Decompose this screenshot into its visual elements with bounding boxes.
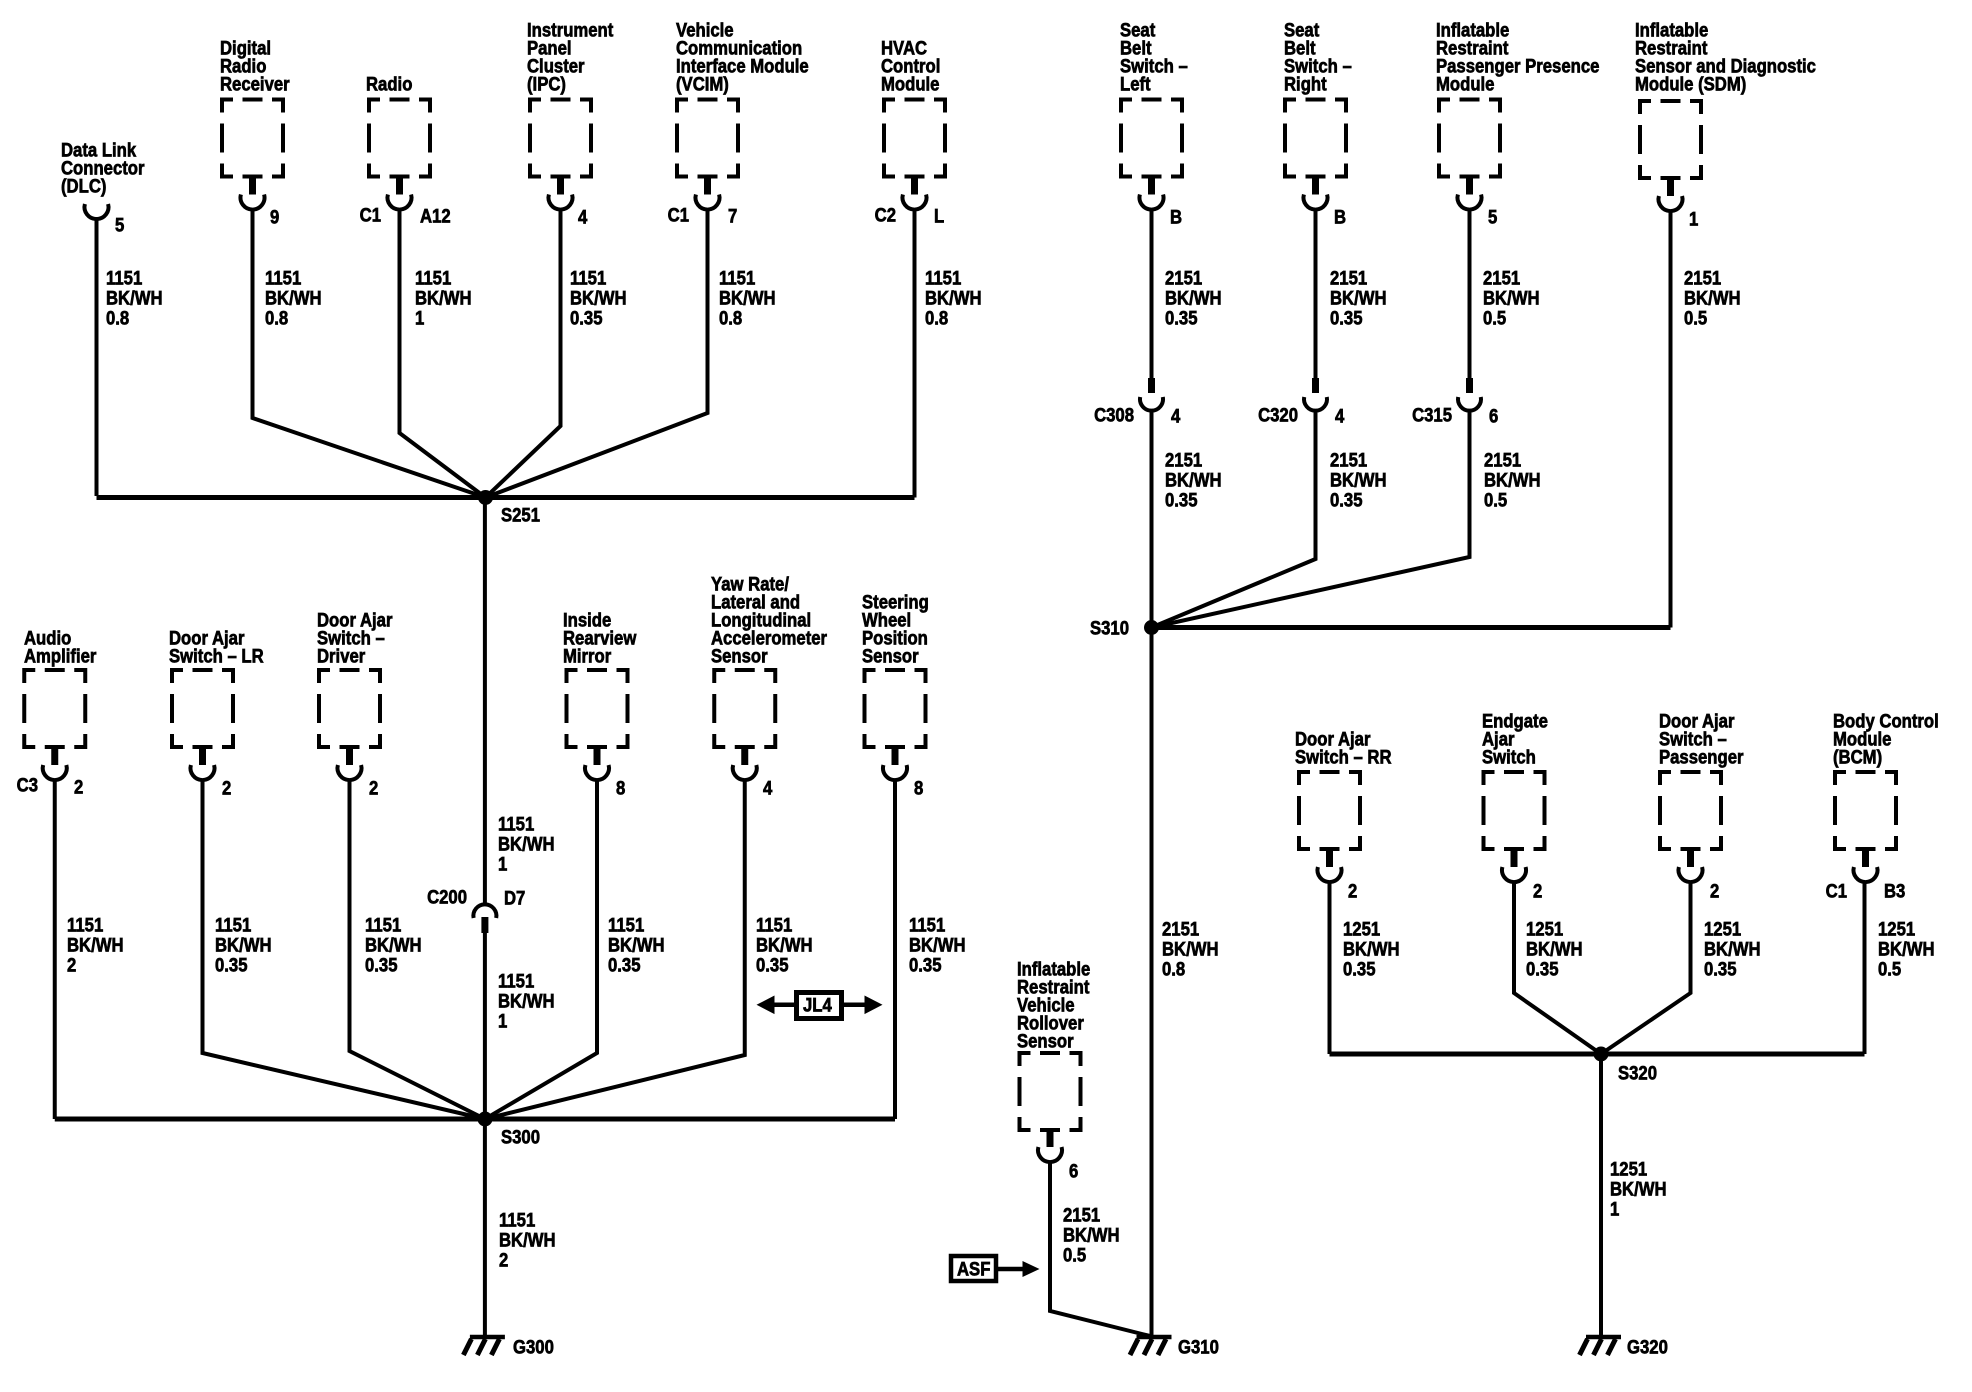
- component Inside Rearview Mirror: [565, 668, 630, 749]
- svg-text:0.5: 0.5: [1483, 308, 1506, 329]
- pin 2 (Endgate Ajar Switch): [1533, 881, 1542, 902]
- svg-text:1251: 1251: [1610, 1159, 1647, 1180]
- wire label 1151 BK/WH 1 (Radio): [415, 268, 472, 329]
- wire label 1251 BK/WH 0.35 (Passenger): [1704, 919, 1761, 980]
- component Seat Belt Switch Left: [1119, 98, 1184, 179]
- svg-text:1151: 1151: [909, 915, 945, 936]
- wire 1251 BK/WH from BCM: [1863, 882, 1867, 1054]
- wire 1251 BK/WH from Endgate Ajar Switch: [1514, 882, 1601, 1054]
- wire label 1151 BK/WH 1 (below C200): [498, 971, 555, 1032]
- label Body Control Module (BCM): [1833, 711, 1939, 768]
- svg-text:G320: G320: [1627, 1337, 1668, 1358]
- svg-text:0.35: 0.35: [1330, 490, 1363, 511]
- svg-text:1151: 1151: [498, 814, 534, 835]
- svg-text:Sensor: Sensor: [711, 646, 768, 667]
- svg-text:2151: 2151: [1165, 450, 1202, 471]
- wire label 1151 BK/WH 0.35 (IRM): [608, 915, 665, 976]
- svg-text:0.5: 0.5: [1684, 308, 1707, 329]
- label Instrument Panel Cluster (IPC): [527, 20, 613, 95]
- svg-text:4: 4: [763, 778, 772, 799]
- pin 7 (VCIM): [728, 206, 737, 227]
- pin 8 (Inside Rearview Mirror): [616, 778, 625, 799]
- connector C1 (Radio): [360, 205, 381, 226]
- wire 1151 BK/WH S251 to C200: [483, 498, 487, 907]
- node label S310: [1090, 618, 1129, 639]
- svg-text:6: 6: [1069, 1161, 1078, 1182]
- svg-text:0.5: 0.5: [1878, 959, 1901, 980]
- svg-text:C1: C1: [668, 205, 689, 226]
- wire label 1151 BK/WH 0.8 (DLC): [106, 268, 163, 329]
- connector BCM: [1854, 851, 1878, 882]
- pin 8 (SWPS): [914, 778, 923, 799]
- svg-text:C1: C1: [1826, 881, 1847, 902]
- connector Digital Radio Receiver: [241, 179, 265, 210]
- svg-text:BK/WH: BK/WH: [106, 288, 163, 309]
- node label S320: [1618, 1063, 1657, 1084]
- pin 2 (Door Ajar LR): [222, 778, 231, 799]
- svg-text:0.35: 0.35: [1330, 308, 1363, 329]
- connector C1 (BCM): [1826, 881, 1847, 902]
- splice S320: [1594, 1047, 1609, 1062]
- connector label C320: [1258, 405, 1298, 426]
- pin 6 (Rollover Sensor): [1069, 1161, 1078, 1182]
- svg-text:B3: B3: [1884, 881, 1905, 902]
- svg-text:Sensor: Sensor: [862, 646, 919, 667]
- svg-text:2: 2: [369, 778, 378, 799]
- svg-text:1151: 1151: [415, 268, 451, 289]
- svg-text:1151: 1151: [215, 915, 251, 936]
- pin 4 (C320): [1335, 406, 1344, 427]
- svg-text:Module (SDM): Module (SDM): [1635, 74, 1746, 95]
- svg-text:0.35: 0.35: [909, 955, 942, 976]
- component Door Ajar Switch Passenger: [1658, 770, 1723, 851]
- svg-text:Right: Right: [1284, 74, 1327, 95]
- connector Seat Belt Switch Left: [1140, 179, 1164, 210]
- svg-text:BK/WH: BK/WH: [215, 935, 272, 956]
- label Door Ajar Switch - RR: [1295, 729, 1392, 768]
- label Door Ajar Switch - LR: [169, 628, 264, 667]
- pin B3 (BCM): [1884, 881, 1905, 902]
- pin 2 (Door Ajar Driver): [369, 778, 378, 799]
- wire label 1251 BK/WH 0.35 (RR): [1343, 919, 1400, 980]
- wire 1151 BK/WH C200 to S300: [483, 932, 487, 1119]
- label Endgate Ajar Switch: [1482, 711, 1548, 768]
- connector label C200: [427, 887, 467, 908]
- svg-text:C200: C200: [427, 887, 467, 908]
- wire label 2151 BK/WH 0.5 (PPM): [1483, 268, 1540, 329]
- wire label 1151 BK/WH 1 (above C200): [498, 814, 555, 875]
- pin B (Seat Belt Left): [1170, 207, 1182, 228]
- svg-text:B: B: [1170, 207, 1182, 228]
- pin 4 (Yaw Rate Sensor): [763, 778, 772, 799]
- wire 2151 BK/WH from Rollover Sensor: [1050, 1162, 1150, 1336]
- pin 5 (DLC): [115, 215, 124, 236]
- wire label 1151 BK/WH 2 (Audio): [67, 915, 124, 976]
- svg-text:5: 5: [115, 215, 124, 236]
- svg-text:BK/WH: BK/WH: [608, 935, 665, 956]
- wire 2151 BK/WH from SDM: [1669, 211, 1673, 628]
- wire label 1151 BK/WH 0.35 (LR): [215, 915, 272, 976]
- svg-text:ASF: ASF: [957, 1259, 990, 1280]
- connector VCIM: [696, 179, 720, 210]
- component Door Ajar Switch RR: [1297, 770, 1362, 851]
- svg-text:8: 8: [914, 778, 923, 799]
- component Audio Amplifier: [22, 668, 87, 749]
- wire 2151 BK/WH PPM upper: [1468, 210, 1472, 379]
- label Inflatable Restraint Passenger Presence Module: [1436, 20, 1599, 95]
- connector DLC terminal: [85, 204, 109, 219]
- label Vehicle Communication Interface Module (VCIM): [676, 20, 809, 95]
- component HVAC Control Module: [882, 98, 947, 179]
- svg-text:0.8: 0.8: [719, 308, 742, 329]
- svg-text:JL4: JL4: [803, 995, 832, 1016]
- svg-text:Switch – LR: Switch – LR: [169, 646, 264, 667]
- svg-text:Mirror: Mirror: [563, 646, 611, 667]
- label Inside Rearview Mirror: [563, 610, 636, 667]
- svg-text:2: 2: [1710, 881, 1719, 902]
- wire label 1151 BK/WH 0.35 (Yaw): [756, 915, 813, 976]
- svg-text:4: 4: [1171, 406, 1180, 427]
- svg-text:BK/WH: BK/WH: [1165, 470, 1222, 491]
- svg-text:1: 1: [1610, 1199, 1619, 1220]
- svg-text:S310: S310: [1090, 618, 1129, 639]
- svg-text:0.35: 0.35: [1704, 959, 1737, 980]
- svg-text:5: 5: [1488, 207, 1497, 228]
- wire label 1151 BK/WH 0.8 (DRR): [265, 268, 322, 329]
- svg-text:1151: 1151: [925, 268, 961, 289]
- wire label 2151 BK/WH 0.35 (below C308): [1165, 450, 1222, 511]
- wire 2151 BK/WH Seat Belt Right lower: [1152, 410, 1316, 628]
- svg-text:1151: 1151: [719, 268, 755, 289]
- svg-text:(DLC): (DLC): [61, 176, 106, 197]
- svg-text:1251: 1251: [1704, 919, 1741, 940]
- node label S251: [501, 505, 540, 526]
- connector C200: [473, 904, 496, 933]
- wire bus to splice S310: [1152, 625, 1671, 630]
- svg-text:(IPC): (IPC): [527, 74, 566, 95]
- connector C3 (Audio Amplifier): [17, 775, 38, 796]
- connector Yaw Rate Sensor: [733, 749, 757, 780]
- wire 2151 BK/WH Seat Belt Left lower: [1150, 410, 1154, 1337]
- option ASF box with arrow: [951, 1256, 1040, 1281]
- connector C1 (VCIM): [668, 205, 689, 226]
- svg-text:S300: S300: [501, 1127, 540, 1148]
- svg-text:1151: 1151: [67, 915, 103, 936]
- wire bus to splice S320: [1330, 1052, 1865, 1057]
- svg-text:0.35: 0.35: [1165, 308, 1198, 329]
- node label S300: [501, 1127, 540, 1148]
- label Seat Belt Switch - Left: [1120, 20, 1188, 95]
- svg-text:9: 9: [270, 207, 279, 228]
- ground G310 label G310: [1178, 1337, 1219, 1358]
- component Digital Radio Receiver: [220, 98, 285, 179]
- svg-text:0.35: 0.35: [1526, 959, 1559, 980]
- component Door Ajar Switch Driver: [317, 668, 382, 749]
- wire 1151 BK/WH from HVAC: [913, 210, 917, 498]
- svg-text:BK/WH: BK/WH: [1704, 939, 1761, 960]
- svg-text:2: 2: [1348, 881, 1357, 902]
- wire 1151 BK/WH from VCIM: [486, 210, 708, 498]
- pin 1 (SDM): [1689, 209, 1698, 230]
- svg-text:G310: G310: [1178, 1337, 1219, 1358]
- wire 1151 BK/WH from Inside Rearview Mirror: [485, 780, 597, 1119]
- svg-text:C320: C320: [1258, 405, 1298, 426]
- pin 5 (PPM): [1488, 207, 1497, 228]
- splice S310: [1144, 620, 1159, 635]
- connector HVAC: [903, 179, 927, 210]
- wire 1151 BK/WH S300 to ground: [483, 1119, 487, 1337]
- svg-text:0.35: 0.35: [756, 955, 789, 976]
- svg-text:BK/WH: BK/WH: [1483, 288, 1540, 309]
- wire 1151 BK/WH from Audio Amplifier: [53, 780, 57, 1119]
- pin A12 (Radio): [420, 206, 451, 227]
- connector Door Ajar Switch LR: [191, 749, 215, 780]
- connector label C308: [1094, 405, 1134, 426]
- svg-text:4: 4: [1335, 406, 1344, 427]
- svg-text:BK/WH: BK/WH: [1484, 470, 1541, 491]
- ground G320: [1580, 1337, 1622, 1355]
- connector Seat Belt Switch Right: [1304, 179, 1328, 210]
- svg-text:2151: 2151: [1063, 1205, 1100, 1226]
- svg-text:(VCIM): (VCIM): [676, 74, 729, 95]
- svg-text:1151: 1151: [570, 268, 606, 289]
- svg-text:BK/WH: BK/WH: [499, 1230, 556, 1251]
- pin 2 (Door Ajar RR): [1348, 881, 1357, 902]
- svg-text:BK/WH: BK/WH: [1330, 288, 1387, 309]
- svg-text:Driver: Driver: [317, 646, 365, 667]
- pin L (HVAC): [934, 206, 944, 227]
- svg-text:Amplifier: Amplifier: [24, 646, 96, 667]
- svg-text:0.35: 0.35: [365, 955, 398, 976]
- connector label C315: [1412, 405, 1452, 426]
- svg-text:BK/WH: BK/WH: [756, 935, 813, 956]
- splice S300: [478, 1112, 493, 1127]
- wire bus to splice S300: [55, 1117, 895, 1122]
- svg-text:6: 6: [1489, 406, 1498, 427]
- wire label 1151 BK/WH 0.35 (IPC): [570, 268, 627, 329]
- svg-text:C2: C2: [875, 205, 896, 226]
- svg-text:1151: 1151: [365, 915, 401, 936]
- connector Endgate Ajar Switch: [1502, 851, 1526, 882]
- component Steering Wheel Position Sensor: [863, 668, 928, 749]
- svg-text:(BCM): (BCM): [1833, 747, 1882, 768]
- svg-text:0.8: 0.8: [925, 308, 948, 329]
- connector C315: [1458, 378, 1481, 411]
- svg-text:BK/WH: BK/WH: [909, 935, 966, 956]
- wire label 1251 BK/WH 1 (to G320): [1610, 1159, 1667, 1220]
- svg-text:2: 2: [222, 778, 231, 799]
- svg-text:0.35: 0.35: [215, 955, 248, 976]
- svg-text:A12: A12: [420, 206, 451, 227]
- wire label 1151 BK/WH 0.8 (HVAC): [925, 268, 982, 329]
- label HVAC Control Module: [881, 38, 940, 95]
- svg-text:C3: C3: [17, 775, 38, 796]
- option label ASF: [957, 1259, 990, 1280]
- svg-text:0.35: 0.35: [608, 955, 641, 976]
- svg-text:BK/WH: BK/WH: [1684, 288, 1741, 309]
- pin D7 (C200): [504, 888, 525, 909]
- svg-text:Receiver: Receiver: [220, 74, 290, 95]
- svg-text:BK/WH: BK/WH: [1330, 470, 1387, 491]
- wire 1251 BK/WH S320 to ground: [1599, 1054, 1603, 1337]
- ground G300 label G300: [513, 1337, 554, 1358]
- wire label 2151 BK/WH 0.35 (SBL): [1165, 268, 1222, 329]
- connector Door Ajar Switch RR: [1318, 851, 1342, 882]
- wire 1151 BK/WH from Digital Radio Receiver: [253, 210, 486, 498]
- component Instrument Panel Cluster: [528, 98, 593, 179]
- svg-text:2151: 2151: [1484, 450, 1521, 471]
- svg-text:Passenger: Passenger: [1659, 747, 1744, 768]
- svg-text:BK/WH: BK/WH: [67, 935, 124, 956]
- wire bus to splice S251: [97, 495, 915, 500]
- svg-text:2151: 2151: [1330, 450, 1367, 471]
- pin 4 (C308): [1171, 406, 1180, 427]
- svg-text:0.35: 0.35: [1343, 959, 1376, 980]
- svg-text:0.8: 0.8: [265, 308, 288, 329]
- svg-text:0.35: 0.35: [1165, 490, 1198, 511]
- svg-text:2151: 2151: [1162, 919, 1199, 940]
- connector Steering Wheel Position Sensor: [883, 749, 907, 780]
- svg-text:1151: 1151: [608, 915, 644, 936]
- svg-text:1: 1: [1689, 209, 1698, 230]
- svg-text:2: 2: [1533, 881, 1542, 902]
- wire label 1151 BK/WH 0.35 (Driver): [365, 915, 422, 976]
- svg-text:S320: S320: [1618, 1063, 1657, 1084]
- svg-text:1251: 1251: [1343, 919, 1380, 940]
- svg-text:2151: 2151: [1165, 268, 1202, 289]
- component Yaw Rate Sensor: [712, 668, 777, 749]
- svg-text:1151: 1151: [106, 268, 142, 289]
- svg-text:1: 1: [498, 1011, 507, 1032]
- svg-text:C308: C308: [1094, 405, 1134, 426]
- svg-text:BK/WH: BK/WH: [365, 935, 422, 956]
- svg-text:BK/WH: BK/WH: [719, 288, 776, 309]
- wire 1251 BK/WH from Door Ajar RR: [1328, 882, 1332, 1054]
- connector C308: [1140, 378, 1163, 411]
- label Digital Radio Receiver: [220, 38, 290, 95]
- svg-text:Module: Module: [1436, 74, 1494, 95]
- svg-text:BK/WH: BK/WH: [498, 991, 555, 1012]
- svg-text:2151: 2151: [1330, 268, 1367, 289]
- pin 2 (Audio Amplifier): [74, 777, 83, 798]
- ground G300: [463, 1337, 505, 1355]
- wire 2151 BK/WH PPM lower: [1152, 410, 1470, 628]
- component Body Control Module: [1833, 770, 1898, 851]
- svg-text:BK/WH: BK/WH: [1610, 1179, 1667, 1200]
- wire label 2151 BK/WH 0.5 (Rollover): [1063, 1205, 1120, 1266]
- pin 2 (Door Ajar Passenger): [1710, 881, 1719, 902]
- wire label 2151 BK/WH 0.5 (below C315): [1484, 450, 1541, 511]
- splice S251: [478, 490, 493, 505]
- label Inflatable Restraint Vehicle Rollover Sensor: [1017, 959, 1090, 1052]
- connector Inside Rearview Mirror: [585, 749, 609, 780]
- label Door Ajar Switch - Driver: [317, 610, 393, 667]
- component Radio: [367, 98, 432, 179]
- wire label 2151 BK/WH 0.8 (S310 to G310): [1162, 919, 1219, 980]
- wire 1151 BK/WH from SWPS: [893, 780, 897, 1119]
- component Endgate Ajar Switch: [1482, 770, 1547, 851]
- svg-text:2: 2: [74, 777, 83, 798]
- svg-text:BK/WH: BK/WH: [498, 834, 555, 855]
- wire label 1251 BK/WH 0.5 (BCM): [1878, 919, 1935, 980]
- svg-text:1151: 1151: [498, 971, 534, 992]
- connector Door Ajar Switch Passenger: [1679, 851, 1703, 882]
- svg-text:7: 7: [728, 206, 737, 227]
- component Seat Belt Switch Right: [1283, 98, 1348, 179]
- svg-text:4: 4: [578, 207, 587, 228]
- option JL4 box with double arrow: [757, 993, 883, 1019]
- svg-text:BK/WH: BK/WH: [265, 288, 322, 309]
- svg-text:BK/WH: BK/WH: [1526, 939, 1583, 960]
- svg-text:2151: 2151: [1684, 268, 1721, 289]
- svg-text:B: B: [1334, 207, 1346, 228]
- svg-text:0.5: 0.5: [1063, 1245, 1086, 1266]
- svg-text:Module: Module: [881, 74, 939, 95]
- svg-text:S251: S251: [501, 505, 540, 526]
- component Passenger Presence Module: [1437, 98, 1502, 179]
- pin B (Seat Belt Right): [1334, 207, 1346, 228]
- ground G310: [1130, 1337, 1172, 1355]
- svg-text:Radio: Radio: [366, 74, 412, 95]
- svg-text:G300: G300: [513, 1337, 554, 1358]
- wire label 1151 BK/WH 0.8 (VCIM): [719, 268, 776, 329]
- wire label 1251 BK/WH 0.35 (Endgate): [1526, 919, 1583, 980]
- svg-text:Sensor: Sensor: [1017, 1031, 1074, 1052]
- connector Passenger Presence Module: [1458, 179, 1482, 210]
- svg-text:BK/WH: BK/WH: [925, 288, 982, 309]
- svg-text:0.8: 0.8: [1162, 959, 1185, 980]
- svg-text:D7: D7: [504, 888, 525, 909]
- svg-text:0.5: 0.5: [1484, 490, 1507, 511]
- ground G320 label G320: [1627, 1337, 1668, 1358]
- wire 1151 BK/WH from Door Ajar Driver: [350, 780, 486, 1119]
- connector Door Ajar Switch Driver: [338, 749, 362, 780]
- svg-text:1151: 1151: [265, 268, 301, 289]
- pin 6 (C315): [1489, 406, 1498, 427]
- svg-text:BK/WH: BK/WH: [570, 288, 627, 309]
- connector SDM: [1658, 180, 1682, 211]
- wire label 2151 BK/WH 0.35 (below C320): [1330, 450, 1387, 511]
- wire 1251 BK/WH from Door Ajar Passenger: [1601, 882, 1691, 1054]
- svg-text:8: 8: [616, 778, 625, 799]
- svg-text:1151: 1151: [756, 915, 792, 936]
- component Door Ajar Switch LR: [170, 668, 235, 749]
- svg-text:Left: Left: [1120, 74, 1151, 95]
- wire 1151 BK/WH from DLC: [95, 217, 99, 496]
- label Audio Amplifier: [24, 628, 96, 667]
- label Door Ajar Switch - Passenger: [1659, 711, 1744, 768]
- svg-text:BK/WH: BK/WH: [415, 288, 472, 309]
- wire 2151 BK/WH Seat Belt Left upper: [1150, 210, 1154, 379]
- label Steering Wheel Position Sensor: [862, 592, 929, 667]
- svg-text:BK/WH: BK/WH: [1162, 939, 1219, 960]
- svg-text:BK/WH: BK/WH: [1878, 939, 1935, 960]
- svg-text:1251: 1251: [1878, 919, 1915, 940]
- wire label 2151 BK/WH 0.35 (SBR): [1330, 268, 1387, 329]
- label Yaw Rate Sensor: [711, 574, 827, 667]
- component SDM: [1638, 99, 1703, 180]
- svg-text:C315: C315: [1412, 405, 1452, 426]
- wire 2151 BK/WH Seat Belt Right upper: [1314, 210, 1318, 379]
- svg-text:BK/WH: BK/WH: [1063, 1225, 1120, 1246]
- svg-text:1: 1: [415, 308, 424, 329]
- svg-text:BK/WH: BK/WH: [1165, 288, 1222, 309]
- connector IPC: [549, 179, 573, 210]
- svg-text:0.8: 0.8: [106, 308, 129, 329]
- svg-text:1251: 1251: [1526, 919, 1563, 940]
- option label JL4: [803, 995, 832, 1016]
- label Data Link Connector (DLC): [61, 140, 145, 197]
